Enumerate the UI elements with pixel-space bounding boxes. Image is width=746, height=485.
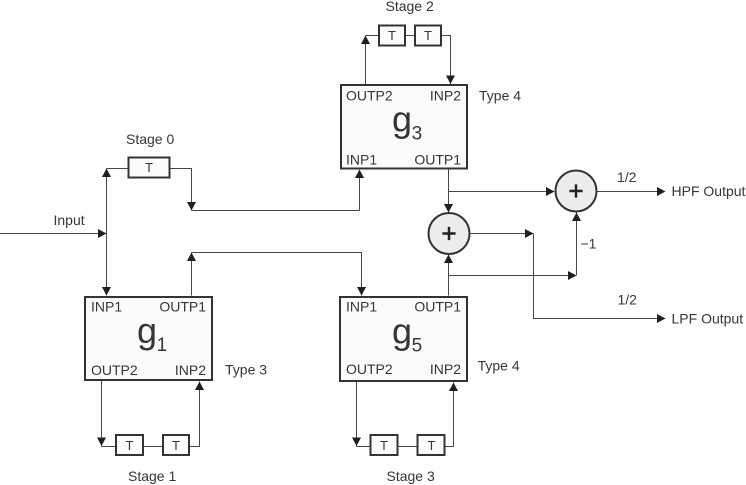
wire stub to stage0 delay (107, 168, 130, 170)
wire g3 OUTP1 down to adder A1 (448, 170, 450, 213)
block g1 (85, 297, 212, 380)
svg-text:OUTP1: OUTP1 (159, 298, 206, 314)
block g3 (341, 85, 467, 169)
svg-text:1/2: 1/2 (618, 291, 638, 307)
wire stage0 output to g3 INP1 (171, 169, 192, 211)
svg-text:INP2: INP2 (175, 362, 206, 378)
wire between stage1 delays (144, 446, 164, 448)
wire g1 OUTP2 down to stage1 (101, 381, 103, 447)
wire stage2 into g3 INP2 (442, 36, 451, 85)
delay T stage1 first (116, 435, 143, 455)
wire input horizontal (0, 233, 104, 235)
svg-text:LPF Output: LPF Output (672, 311, 744, 327)
svg-text:Stage 1: Stage 1 (128, 468, 176, 484)
svg-text:OUTP2: OUTP2 (346, 361, 393, 377)
svg-text:INP2: INP2 (430, 361, 461, 377)
svg-text:−1: −1 (581, 235, 597, 251)
svg-text:T: T (126, 438, 134, 453)
svg-text:3: 3 (412, 124, 423, 145)
delay T stage3 second (418, 435, 445, 455)
wire adder A2 to HPF output (598, 191, 659, 193)
svg-text:Input: Input (54, 212, 85, 228)
svg-text:g: g (137, 310, 157, 351)
svg-text:T: T (145, 160, 153, 175)
svg-text:OUTP2: OUTP2 (91, 362, 138, 378)
svg-text:OUTP2: OUTP2 (346, 87, 393, 103)
svg-text:Type 4: Type 4 (479, 87, 521, 103)
svg-text:1/2: 1/2 (617, 169, 637, 185)
wire g3 OUTP2 up to stage2 (365, 36, 367, 85)
svg-text:INP2: INP2 (430, 87, 461, 103)
svg-text:5: 5 (412, 336, 423, 357)
wire adder A1 out to LPF output (471, 233, 534, 235)
wire stage3 to g5 INP2 (446, 383, 454, 447)
svg-text:g: g (392, 311, 412, 352)
wire branch with -1 gain to adder A2 bottom (449, 275, 576, 277)
adder A1 (429, 213, 470, 254)
wire g5 OUTP2 down to stage3 (356, 382, 358, 447)
wire g5 OUTP1 up to adder A1 (448, 255, 450, 296)
wire between stage2 delays (406, 35, 416, 37)
svg-text:Stage 0: Stage 0 (126, 131, 174, 147)
svg-text:1: 1 (157, 335, 168, 356)
delay T stage3 first (371, 435, 398, 455)
delay T stage1 second (163, 435, 189, 455)
block g5 (340, 297, 467, 381)
wire input branch vertical (to stage0 and g1 INP1) (106, 169, 108, 296)
svg-text:OUTP1: OUTP1 (414, 298, 461, 314)
svg-text:Stage 2: Stage 2 (386, 0, 434, 14)
delay T stage2 second (415, 26, 441, 46)
svg-text:INP1: INP1 (346, 151, 377, 167)
svg-text:OUTP1: OUTP1 (414, 151, 461, 167)
svg-text:Type 4: Type 4 (478, 357, 520, 373)
svg-text:T: T (388, 28, 396, 43)
svg-text:HPF Output: HPF Output (672, 183, 746, 199)
svg-text:Stage 3: Stage 3 (387, 468, 435, 484)
svg-text:T: T (428, 438, 436, 453)
svg-text:INP1: INP1 (91, 298, 122, 314)
svg-text:T: T (424, 28, 432, 43)
svg-text:Type 3: Type 3 (225, 362, 267, 378)
delay T stage2 first (379, 26, 405, 46)
wire g1 OUTP1 to g5 INP1 (191, 253, 193, 296)
wire stage1 to g1 INP2 (190, 382, 200, 447)
adder A2 (556, 171, 597, 212)
wire between stage3 delays (399, 446, 419, 448)
svg-text:INP1: INP1 (346, 298, 377, 314)
svg-text:g: g (392, 99, 412, 140)
svg-text:T: T (380, 438, 388, 453)
wire branch to adder A2 left (449, 191, 555, 193)
delay T stage0 (129, 158, 170, 178)
svg-text:T: T (172, 438, 180, 453)
